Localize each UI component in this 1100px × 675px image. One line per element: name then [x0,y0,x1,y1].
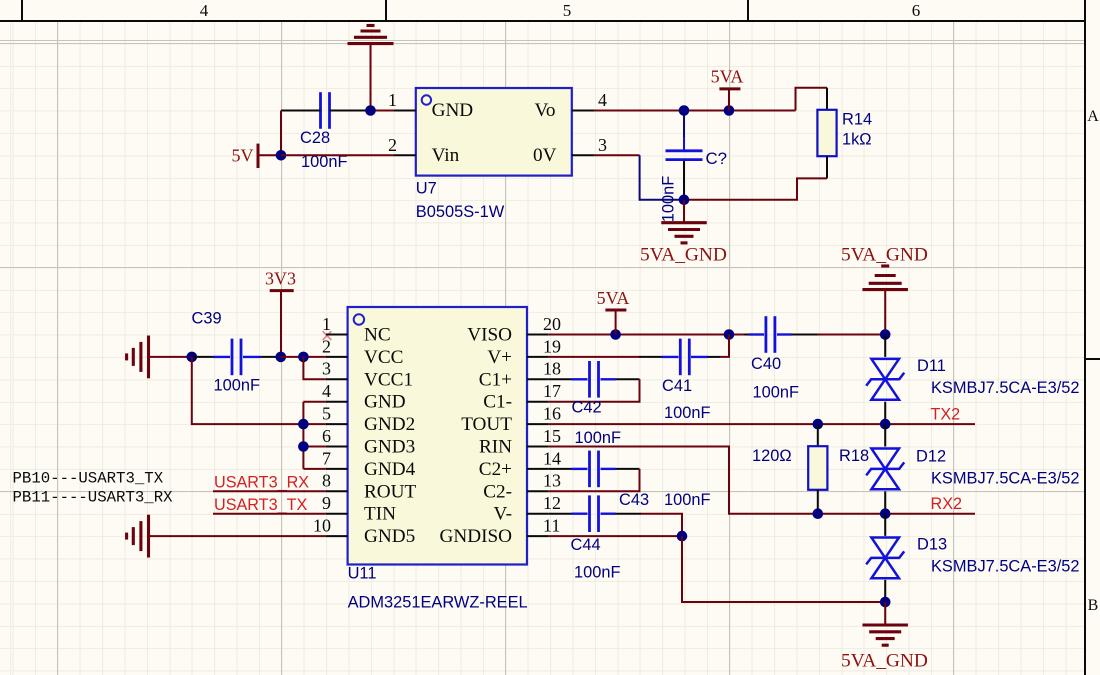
wire C1+ net [549,378,572,380]
svg-text:Vin: Vin [432,145,460,166]
U11 pin 10 GND5 [326,535,348,537]
U11 pin 11 GNDISO [527,535,549,537]
U11 pin 14 C2+ [527,468,549,470]
node Vo junction [679,105,690,116]
U11 pin 17 C1- [527,401,549,403]
U11 pin 6 GND3 [326,446,348,448]
capacitor C41 [639,356,662,358]
wire C28 left drop [280,111,282,156]
svg-text:5VA_GND: 5VA_GND [841,650,928,671]
capacitor C44 [549,513,572,515]
svg-text:4: 4 [598,90,607,110]
wire GND5 [149,535,326,537]
svg-text:USART3_RX: USART3_RX [214,474,309,492]
svg-text:16: 16 [543,404,561,424]
U11 pin 5 GND2 [326,423,348,425]
op U7 component body [416,88,572,176]
wire TOUT / TX2 net [549,423,975,425]
svg-text:11: 11 [543,516,560,536]
svg-text:15: 15 [543,426,561,446]
svg-text:U11: U11 [348,564,377,582]
U11 pin 9 TIN [326,513,348,515]
svg-text:V+: V+ [487,347,512,368]
svg-text:GNDISO: GNDISO [440,526,513,547]
svg-text:VISO: VISO [467,325,512,346]
svg-text:2: 2 [388,135,397,155]
svg-text:GND4: GND4 [364,459,416,480]
svg-text:3: 3 [322,359,331,379]
svg-text:RIN: RIN [479,437,512,458]
svg-text:RX2: RX2 [931,495,963,513]
wire GNDISO net [549,535,682,537]
U11 pin 19 V+ [527,356,549,358]
node D11 top [880,329,891,340]
svg-text:13: 13 [543,471,561,491]
svg-text:C2+: C2+ [479,459,512,480]
svg-text:C?: C? [706,149,727,168]
svg-text:VCC: VCC [364,347,403,368]
power port 5VA (bottom) [610,329,621,340]
node VCC1 branch [298,352,309,363]
svg-text:5VA: 5VA [711,66,744,86]
svg-text:GND: GND [432,100,474,121]
svg-text:1: 1 [388,90,397,110]
ground 5VA_GND (bottom right) [884,602,886,625]
svg-text:18: 18 [543,359,561,379]
svg-text:A: A [1087,108,1099,125]
svg-text:C40: C40 [751,355,781,373]
wire gnd drop to GND2 [192,357,304,424]
svg-text:12: 12 [543,493,561,513]
svg-text:PB10---USART3_TX: PB10---USART3_TX [13,470,164,488]
svg-text:9: 9 [322,493,331,513]
capacitor C39 [192,356,213,358]
wire ROUT [213,490,326,492]
U11 pin 7 GND4 [326,468,348,470]
op U11 component body [348,307,527,565]
svg-text:100nF: 100nF [574,563,620,581]
wire C28 right to pin1 [330,110,371,112]
svg-text:10: 10 [313,516,331,536]
svg-text:C44: C44 [571,536,601,554]
node GND2 [298,419,309,430]
svg-text:2: 2 [322,336,331,356]
node 5V junction [276,150,287,161]
wire GNDISO to bottom ground [682,536,885,602]
wire GND pin stubs [303,401,326,403]
svg-text:GND5: GND5 [364,526,415,547]
svg-text:100nF: 100nF [575,429,621,447]
svg-text:3V3: 3V3 [265,268,296,288]
svg-text:D12: D12 [916,448,946,466]
svg-text:B: B [1088,597,1099,614]
svg-text:R18: R18 [839,447,869,465]
svg-text:5VA_GND: 5VA_GND [841,244,928,265]
svg-text:1: 1 [322,314,331,334]
svg-text:100nF: 100nF [664,404,710,422]
U11 pin 20 VISO [527,334,549,336]
svg-text:R14: R14 [842,111,872,129]
U11 pin 1 NC [326,334,348,336]
svg-text:5V: 5V [232,145,254,165]
power port 5VA (top) [724,105,735,116]
svg-text:5: 5 [322,404,331,424]
svg-text:120Ω: 120Ω [752,447,792,465]
svg-text:4: 4 [322,381,331,401]
ground (top, above U7 pin1 net) [367,24,375,27]
wire VCC1 branch [303,357,326,379]
svg-text:8: 8 [322,471,331,491]
wire RIN net [549,447,975,514]
svg-text:6: 6 [322,426,331,446]
svg-text:USART3_TX: USART3_TX [214,496,307,514]
svg-text:C2-: C2- [483,481,512,502]
node GND3 [298,441,309,452]
wire TIN [213,513,326,515]
wire C28 left [281,110,321,112]
wire gnd stem to node [370,44,372,111]
svg-text:5VA_GND: 5VA_GND [640,244,727,265]
U11 pin 3 VCC1 [326,378,348,380]
capacitor C28 [319,92,322,129]
svg-text:4: 4 [200,1,209,20]
node C? bottom junction [679,195,690,206]
diode D12 KSMBJ7.5CA [884,424,886,446]
svg-text:Vo: Vo [535,100,556,121]
svg-text:C43: C43 [619,491,649,509]
node GNDISO junction [677,531,688,542]
svg-text:ROUT: ROUT [364,481,417,502]
U7 pin 4 Vo [572,110,594,112]
sheet border [0,20,1085,22]
ground (left upper) [147,336,150,379]
wire VISO net [549,334,744,336]
U11 pin 4 GND [326,401,348,403]
svg-text:1kΩ: 1kΩ [842,131,872,149]
svg-text:ADM3251EARWZ-REEL: ADM3251EARWZ-REEL [348,593,528,611]
U11 pin 18 C1+ [527,378,549,380]
wire Vo net [594,110,796,112]
svg-text:PB11----USART3_RX: PB11----USART3_RX [13,489,174,507]
svg-text:C28: C28 [300,129,330,147]
svg-text:14: 14 [543,448,561,468]
svg-text:GND2: GND2 [364,414,415,435]
ground (left lower) [147,515,150,558]
U11 pin 16 TOUT [527,423,549,425]
node RX2 junction [880,508,891,519]
no-ERC marker pin1 [323,331,332,340]
diode D11 KSMBJ7.5CA [884,335,886,357]
U7 pin 3 0V [572,154,594,156]
svg-text:TOUT: TOUT [461,414,512,435]
ground 5VA_GND (mid) [683,200,685,223]
U11 pin 12 V- [527,513,549,515]
svg-text:KSMBJ7.5CA-E3/52: KSMBJ7.5CA-E3/52 [931,470,1080,488]
U11 pin 13 C2- [527,490,549,492]
node 3V3 junction [276,352,287,363]
wire V+ net [549,356,639,358]
wire R14 bottom return [684,178,827,199]
svg-text:GND: GND [364,392,406,413]
wire GND bus vertical [302,402,304,469]
svg-text:20: 20 [543,314,561,334]
svg-text:0V: 0V [533,145,557,166]
svg-text:C39: C39 [192,310,222,328]
node C41 top [724,329,735,340]
capacitor C42 [572,378,588,380]
svg-text:C1-: C1- [483,392,512,413]
junction pin1 node [365,105,376,116]
svg-text:VCC1: VCC1 [364,369,413,390]
svg-text:KSMBJ7.5CA-E3/52: KSMBJ7.5CA-E3/52 [931,558,1080,576]
svg-text:3: 3 [598,135,607,155]
svg-text:5VA: 5VA [597,288,630,308]
svg-text:19: 19 [543,336,561,356]
U7 pin 2 Vin [393,154,415,156]
svg-text:17: 17 [543,381,561,401]
U11 pin 15 RIN [527,446,549,448]
svg-text:100nF: 100nF [753,384,799,402]
svg-text:D13: D13 [917,536,947,554]
resistor R14 [826,88,828,110]
svg-text:C1+: C1+ [479,369,512,390]
svg-text:C41: C41 [662,377,692,395]
wire gnd to C39 [149,356,192,358]
wire 0V net [594,154,640,156]
capacitor C40 [744,334,749,336]
resistor R18 [813,419,824,430]
svg-text:7: 7 [322,448,331,468]
svg-text:GND3: GND3 [364,437,415,458]
svg-text:U7: U7 [416,180,437,198]
svg-text:TX2: TX2 [931,405,961,423]
svg-text:C42: C42 [572,399,602,417]
svg-text:NC: NC [364,325,391,346]
svg-text:V-: V- [494,504,512,525]
svg-text:100nF: 100nF [214,377,260,395]
wire 0V vertical (navy) [640,155,684,200]
capacitor C43 [549,468,572,470]
svg-text:D11: D11 [917,357,946,375]
U11 pin 2 VCC [326,356,348,358]
wire VCC net [281,356,326,358]
svg-text:B0505S-1W: B0505S-1W [416,203,505,221]
svg-text:100nF: 100nF [664,491,710,509]
svg-text:5: 5 [563,1,572,20]
node C39 left [187,352,198,363]
U7 pin 1 GND [393,110,415,112]
wire 5V to U7 pin2 [281,154,393,156]
svg-text:TIN: TIN [364,504,396,525]
node TX2 junction [880,419,891,430]
U11 pin 8 ROUT [326,490,348,492]
svg-text:KSMBJ7.5CA-E3/52: KSMBJ7.5CA-E3/52 [931,379,1080,397]
svg-text:100nF: 100nF [660,176,678,222]
node D13 bottom [880,597,891,608]
capacitor C? [666,149,703,152]
capacitor C? leads [683,111,685,138]
svg-text:6: 6 [912,1,921,20]
diode D13 KSMBJ7.5CA [884,514,886,536]
